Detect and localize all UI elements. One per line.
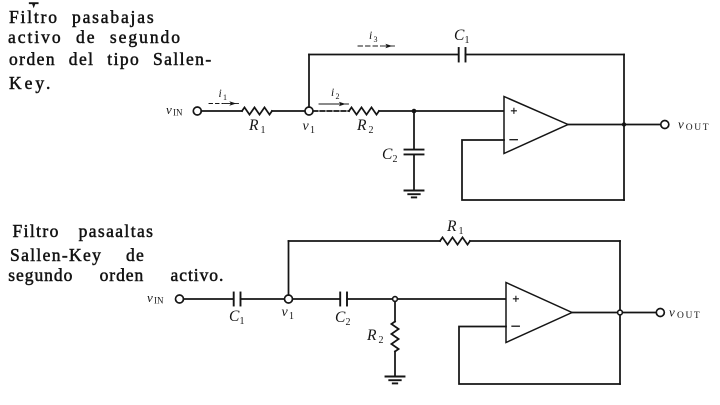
svg-text:i: i xyxy=(219,88,222,100)
label vOUT (top circuit output net) xyxy=(678,117,710,134)
resistor R2 (bottom circuit, vertical) xyxy=(391,322,398,352)
resistor R2 (top circuit) xyxy=(349,107,379,114)
svg-text:IN: IN xyxy=(173,108,183,118)
ground (top circuit) xyxy=(405,191,424,198)
capacitor C2 (bottom circuit) xyxy=(340,293,347,306)
svg-text:i: i xyxy=(331,87,334,99)
wire: C1 to node v1 (bottom) xyxy=(241,298,285,300)
svg-text:C: C xyxy=(382,146,393,163)
wire: C2 to ground xyxy=(413,154,415,190)
wire: right vertical feedback rail (bottom) xyxy=(619,241,621,384)
wire: R1 to right feedback rail (bottom) xyxy=(470,240,620,242)
svg-text:2: 2 xyxy=(379,335,384,346)
svg-text:C: C xyxy=(229,308,240,325)
svg-text:C: C xyxy=(454,27,465,44)
input terminal (bottom circuit) xyxy=(176,295,184,303)
svg-text:OUT: OUT xyxy=(677,311,701,321)
scan artifact mark top edge xyxy=(30,3,38,5)
label R1 (bottom) xyxy=(446,218,464,237)
capacitor C2 (top circuit) xyxy=(405,150,424,155)
label vIN (bottom circuit input net) xyxy=(147,290,164,306)
junction dot at output/feedback (top circuit) xyxy=(622,122,626,126)
svg-text:1: 1 xyxy=(459,226,464,237)
svg-text:R: R xyxy=(248,117,259,134)
svg-text:2: 2 xyxy=(336,92,340,101)
svg-text:OUT: OUT xyxy=(686,123,710,133)
svg-text:3: 3 xyxy=(374,35,378,44)
label vIN (top circuit input net) xyxy=(166,102,183,118)
ground (bottom circuit) xyxy=(386,377,405,384)
junction ring at R2 tap xyxy=(393,297,398,302)
wire: feedback rail to C1 xyxy=(309,54,458,56)
svg-text:2: 2 xyxy=(346,317,351,328)
capacitor C1 (top circuit, feedback) xyxy=(459,48,466,62)
wire: v1 to C2 (bottom) xyxy=(293,298,341,300)
svg-text:1: 1 xyxy=(223,93,227,102)
label v1 (bottom) xyxy=(282,305,295,322)
svg-text:R: R xyxy=(356,117,367,134)
wire: v1 up to feedback rail (bottom) xyxy=(288,241,290,295)
resistor R1 (bottom circuit, feedback) xyxy=(440,237,470,244)
op-amp U1 (top circuit) xyxy=(504,97,568,154)
label R2 (bottom) xyxy=(366,327,384,346)
svg-text:v: v xyxy=(678,117,684,132)
caption: high-pass filter description xyxy=(13,222,155,240)
label C1 (bottom) xyxy=(229,308,245,327)
node v1 (top circuit) xyxy=(305,107,313,115)
svg-text:1: 1 xyxy=(465,35,470,46)
current arrow i2 with label xyxy=(319,87,349,106)
wire: inverting input to feedback (top circuit) xyxy=(462,140,624,200)
svg-text:2: 2 xyxy=(393,154,398,165)
wire: input terminal to R1 xyxy=(201,110,242,112)
wire: op-amp output to terminal (bottom) xyxy=(572,312,656,314)
svg-text:v: v xyxy=(282,305,289,320)
svg-text:v: v xyxy=(147,290,153,305)
wire: R2 to op-amp + input, through C2 junction xyxy=(379,110,504,112)
capacitor C1 (bottom circuit) xyxy=(234,293,241,306)
svg-text:1: 1 xyxy=(261,125,266,136)
label C2 (bottom) xyxy=(335,309,351,328)
label R2 xyxy=(356,117,374,136)
label C1 xyxy=(454,27,470,46)
svg-text:1: 1 xyxy=(310,125,315,136)
wire: C1 to right feedback rail xyxy=(466,54,625,56)
output terminal (top circuit) xyxy=(661,121,669,129)
junction dot at C2 tap xyxy=(412,109,417,114)
current arrow i3 with label xyxy=(358,30,395,48)
svg-text:R: R xyxy=(446,218,457,235)
current arrow i1 with label xyxy=(209,88,239,106)
resistor R1 (top circuit) xyxy=(242,107,272,114)
op-amp U2 (bottom circuit) xyxy=(506,283,572,343)
wire: inverting input to feedback (bottom circuit) xyxy=(459,327,620,385)
wire: right vertical feedback rail (top circuit) xyxy=(623,55,625,201)
svg-text:v: v xyxy=(166,102,172,117)
svg-text:C: C xyxy=(335,309,346,326)
wire: R2 to ground (bottom) xyxy=(394,352,396,377)
svg-text:1: 1 xyxy=(289,311,294,322)
wire: op-amp output to terminal xyxy=(568,124,661,126)
wire: v1 to R2 (dashed in scan) xyxy=(313,110,349,112)
wire: C2 to op-amp + input, through R2 junction xyxy=(347,298,506,300)
svg-text:2: 2 xyxy=(369,125,374,136)
wire: input terminal to C1 xyxy=(183,298,233,300)
svg-text:IN: IN xyxy=(154,296,164,306)
label v1 xyxy=(303,119,316,136)
svg-text:v: v xyxy=(669,305,675,320)
node v1 (bottom circuit) xyxy=(285,295,293,303)
wire: feedback rail to R1 (bottom) xyxy=(289,240,441,242)
label C2 xyxy=(382,146,398,165)
input terminal (top circuit) xyxy=(193,107,201,115)
output terminal (bottom circuit) xyxy=(656,309,664,317)
wire: junction down to R2 xyxy=(394,302,396,322)
junction ring at output/feedback (bottom circuit) xyxy=(618,310,623,315)
svg-text:R: R xyxy=(366,327,377,344)
label R1 xyxy=(248,117,266,136)
svg-text:1: 1 xyxy=(240,316,245,327)
label vOUT (bottom circuit output net) xyxy=(669,305,701,322)
wire: R1 to node v1 xyxy=(272,110,305,112)
svg-text:v: v xyxy=(303,119,310,134)
svg-text:i: i xyxy=(369,30,372,42)
wire: junction down to C2 xyxy=(413,111,415,149)
wire: v1 up to feedback rail xyxy=(308,55,310,108)
caption: low-pass filter description xyxy=(9,8,155,26)
